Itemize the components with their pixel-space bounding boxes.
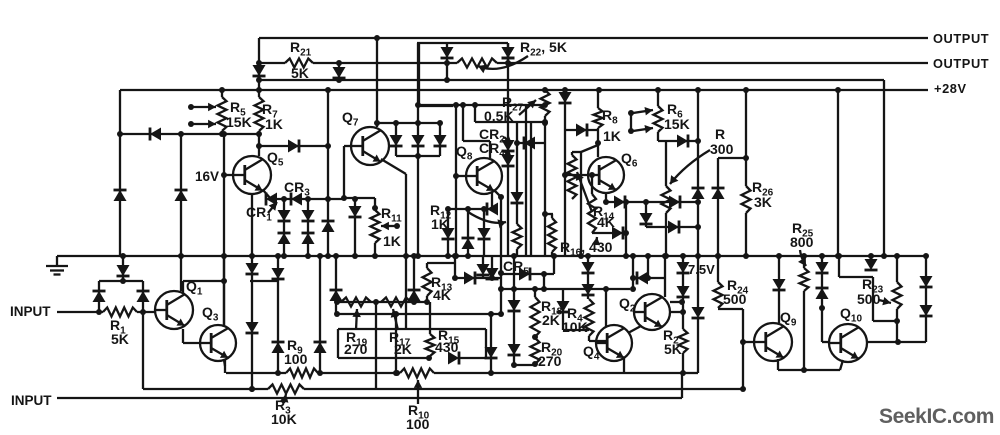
- svg-text:1K: 1K: [265, 116, 283, 132]
- svg-text:SeekIC.com: SeekIC.com: [879, 405, 994, 428]
- svg-text:5K: 5K: [291, 65, 309, 81]
- svg-text:4K: 4K: [433, 287, 451, 303]
- svg-text:R: R: [715, 126, 725, 142]
- svg-text:15K: 15K: [226, 114, 252, 130]
- svg-text:Q10: Q10: [840, 305, 862, 325]
- svg-text:1K: 1K: [431, 216, 449, 232]
- svg-text:10K: 10K: [271, 411, 297, 427]
- svg-text:+28V: +28V: [934, 81, 967, 96]
- svg-text:7.5V: 7.5V: [688, 262, 715, 277]
- svg-text:INPUT: INPUT: [11, 393, 52, 408]
- svg-text:270: 270: [538, 353, 562, 369]
- svg-text:2K: 2K: [394, 341, 412, 357]
- svg-text:Q6: Q6: [621, 150, 638, 170]
- svg-text:500: 500: [723, 291, 747, 307]
- svg-text:3K: 3K: [754, 194, 772, 210]
- svg-text:Q7: Q7: [342, 109, 359, 129]
- svg-text:500: 500: [857, 291, 881, 307]
- svg-text:INPUT: INPUT: [10, 304, 51, 319]
- svg-text:430: 430: [435, 339, 459, 355]
- svg-text:OUTPUT: OUTPUT: [933, 56, 989, 71]
- svg-text:1K: 1K: [383, 233, 401, 249]
- svg-text:300: 300: [710, 141, 734, 157]
- svg-text:1K: 1K: [603, 128, 621, 144]
- svg-text:5K: 5K: [664, 341, 682, 357]
- svg-text:2K: 2K: [542, 312, 560, 328]
- svg-text:800: 800: [790, 234, 814, 250]
- svg-text:5K: 5K: [111, 331, 129, 347]
- svg-text:100: 100: [284, 351, 308, 367]
- svg-text:Q2: Q2: [619, 295, 636, 315]
- svg-text:R8: R8: [602, 107, 618, 127]
- svg-text:OUTPUT: OUTPUT: [933, 31, 989, 46]
- svg-text:R21: R21: [290, 39, 312, 59]
- svg-text:R11: R11: [381, 205, 402, 225]
- svg-text:15K: 15K: [664, 116, 690, 132]
- svg-text:16V: 16V: [195, 169, 219, 184]
- svg-text:Q3: Q3: [202, 304, 219, 324]
- svg-text:270: 270: [344, 341, 368, 357]
- svg-text:Q8: Q8: [456, 143, 473, 163]
- svg-text:CR1: CR1: [246, 204, 272, 224]
- svg-text:100: 100: [406, 416, 430, 432]
